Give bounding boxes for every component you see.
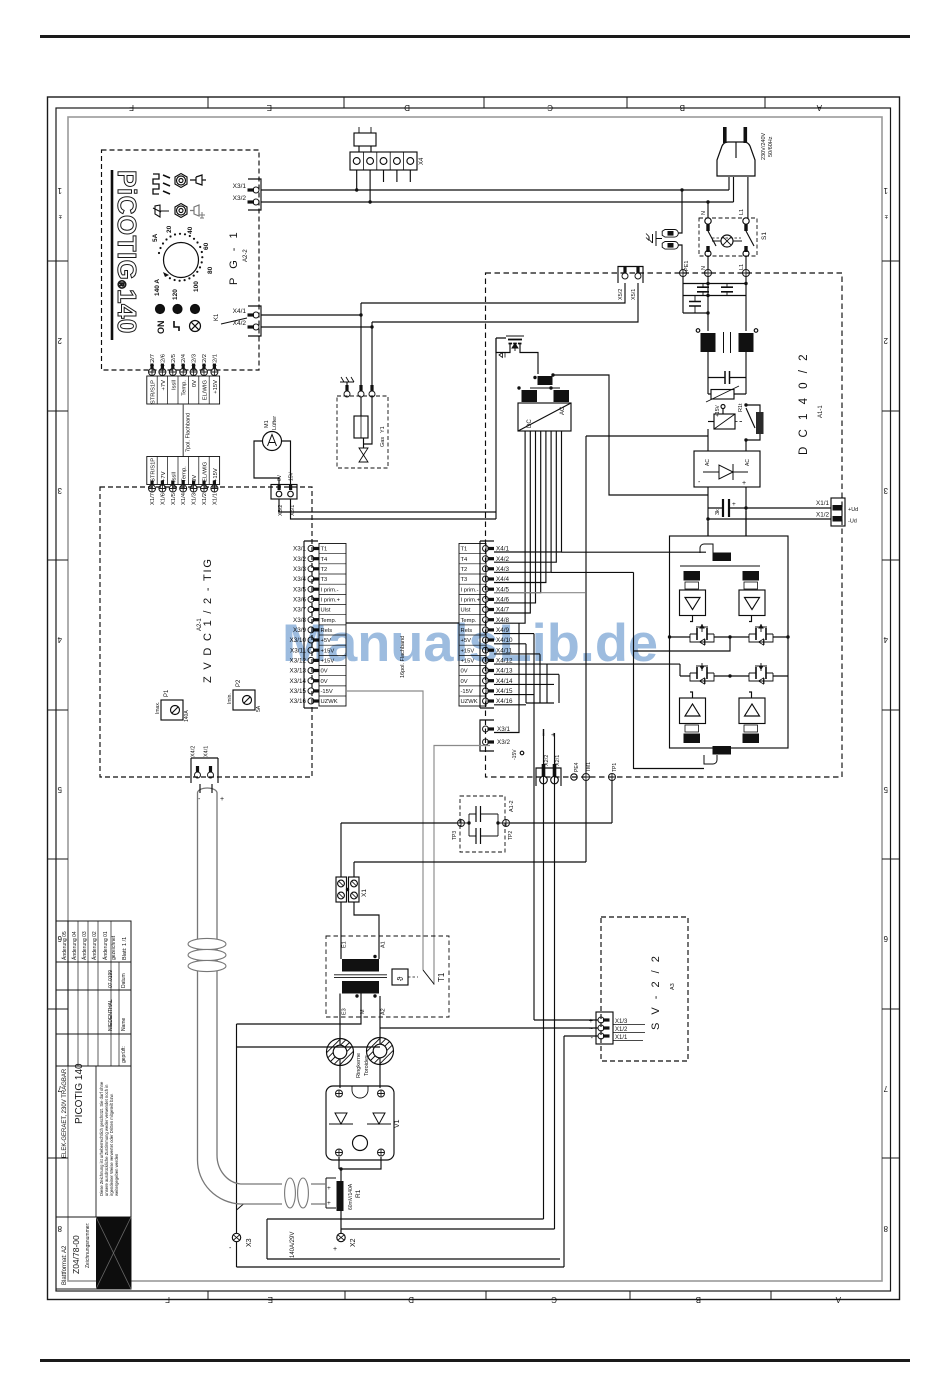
- svg-text:I prim.+: I prim.+: [321, 598, 341, 604]
- svg-text:X4/7: X4/7: [496, 607, 509, 614]
- svg-text:X3/16: X3/16: [290, 698, 307, 705]
- svg-text:PICOTIG 140: PICOTIG 140: [74, 1063, 85, 1124]
- bridge mid tap down: [634, 637, 731, 651]
- svg-text:X3/15: X3/15: [290, 688, 307, 695]
- svg-text:100: 100: [193, 281, 200, 292]
- svg-text:-15V: -15V: [321, 689, 333, 695]
- svg-text:±: ±: [884, 213, 888, 219]
- TITLEBLOCK: [56, 921, 131, 1289]
- svg-text:T3: T3: [321, 577, 328, 583]
- aux transformer T2 secondaries: [522, 390, 538, 402]
- terminal block X4 (torch): [350, 152, 417, 170]
- svg-text:Zeichnungsnummer:: Zeichnungsnummer:: [85, 1222, 91, 1268]
- svg-text:A1-1: A1-1: [818, 405, 824, 418]
- svg-text:+7V: +7V: [161, 380, 167, 391]
- shunt R1: [326, 1178, 336, 1208]
- svg-text:+: +: [333, 1246, 337, 1253]
- svg-text:8: 8: [883, 1224, 888, 1233]
- svg-text:TM1: TM1: [586, 762, 592, 772]
- svg-text:X3/7: X3/7: [293, 607, 306, 614]
- ring core toroid 1: [327, 1039, 354, 1066]
- connector X4 bottom of ZVDC: [191, 758, 218, 783]
- svg-text:1: 1: [883, 186, 888, 195]
- SV wires: [534, 634, 598, 1020]
- PICOTIG 140 logo bar: [111, 170, 114, 340]
- svg-text:60: 60: [203, 242, 210, 250]
- svg-text:Toroides: Toroides: [364, 1055, 370, 1076]
- svg-text:3: 3: [57, 486, 62, 495]
- svg-text:A2: A2: [381, 1008, 387, 1015]
- svg-text:-: -: [698, 479, 701, 486]
- svg-text:L1: L1: [739, 264, 745, 270]
- svg-text:E: E: [267, 103, 272, 112]
- inrush resistor: [756, 412, 764, 434]
- svg-text:+: +: [589, 1018, 593, 1025]
- svg-text:X4: X4: [419, 157, 425, 165]
- Y1 valve symbol: [363, 438, 365, 448]
- chassis ground (mains): [649, 231, 662, 246]
- potentiometer P1: [161, 700, 183, 720]
- fan wires: [254, 441, 279, 485]
- svg-text:DC: DC: [527, 419, 533, 428]
- svg-text:Blattformat: A2: Blattformat: A2: [62, 1245, 68, 1285]
- svg-text:4: 4: [57, 635, 62, 644]
- MOSFET Q3: [749, 633, 773, 635]
- svg-text:D: D: [408, 1295, 414, 1304]
- svg-text:X2: X2: [350, 1238, 357, 1247]
- top page rule: [40, 35, 910, 38]
- frame column ticks top: [208, 97, 765, 108]
- cable strain curls vertical: [188, 938, 226, 971]
- snubber capacitors: [469, 814, 498, 836]
- svg-text:E3: E3: [342, 1008, 348, 1015]
- svg-text:M1: M1: [264, 420, 270, 428]
- svg-text:A3: A3: [670, 983, 676, 990]
- gate transformer BL: [685, 725, 699, 732]
- filter capacitor C3: [689, 302, 701, 307]
- svg-text:Imax.: Imax.: [155, 702, 161, 714]
- svg-text:15V: 15V: [289, 471, 295, 481]
- svg-text:0V: 0V: [192, 475, 198, 482]
- svg-text:AC: AC: [745, 459, 751, 466]
- MOSFET Q4: [690, 672, 714, 674]
- svg-text:4: 4: [883, 635, 888, 644]
- X2 signal name grid: [147, 376, 220, 404]
- rectifier V1: [326, 1086, 394, 1160]
- PE spade connectors: [662, 230, 678, 238]
- test point TP3: [458, 820, 465, 827]
- fan supply wires: [279, 499, 496, 512]
- test point PE4: [571, 774, 577, 780]
- svg-text:X4/1: X4/1: [204, 746, 210, 757]
- svg-text:Änderung 04: Änderung 04: [71, 931, 78, 960]
- svg-text:X1/2: X1/2: [202, 493, 208, 505]
- output terminal X2: [337, 1233, 345, 1241]
- X3 wires: [237, 1024, 565, 1267]
- V1 diode 2: [367, 1113, 391, 1124]
- svg-text:I prim.-: I prim.-: [321, 587, 339, 593]
- terminal row X2/1..X2/7: [149, 364, 218, 376]
- wire X3/2 mains N run: [261, 177, 734, 218]
- svg-text:Änderung 03: Änderung 03: [81, 931, 88, 960]
- svg-text:20: 20: [166, 225, 173, 233]
- svg-text:7: 7: [883, 1084, 888, 1093]
- svg-text:STR/S1P: STR/S1P: [151, 458, 157, 482]
- gray drawing border: [68, 117, 882, 1281]
- relay K1 coil: [714, 414, 735, 429]
- bridge rectifier V: [694, 451, 760, 487]
- svg-text:A1-2: A1-2: [509, 800, 515, 812]
- svg-text:8: 8: [57, 1224, 62, 1233]
- svg-text:X3/4: X3/4: [293, 576, 306, 583]
- chopper MOSFET Q1: [506, 335, 524, 337]
- output terminal X3: [232, 1233, 240, 1241]
- S1 top terminals: [705, 218, 711, 224]
- svg-text:1: 1: [57, 186, 62, 195]
- svg-text:5: 5: [883, 785, 888, 794]
- X1 to T1 wires: [341, 902, 379, 959]
- svg-text:S1: S1: [761, 232, 768, 240]
- electrode cable tube: [197, 788, 282, 1204]
- svg-text:X3/1: X3/1: [233, 183, 247, 190]
- svg-text:3k: 3k: [715, 509, 721, 515]
- test point TP2: [503, 820, 510, 827]
- cable strain curls horizontal: [285, 1178, 309, 1208]
- board A2-2 PG-1 dashed box: [102, 150, 260, 370]
- svg-text:+: +: [732, 501, 736, 508]
- svg-text:A: A: [816, 103, 822, 112]
- svg-text:gezeichnet: gezeichnet: [111, 935, 117, 960]
- driver U3: [680, 698, 706, 724]
- connector X1 (power board): [831, 498, 845, 526]
- svg-text:X3/2: X3/2: [233, 195, 247, 202]
- svg-text:X3/3: X3/3: [293, 566, 306, 573]
- title block outline: [56, 921, 131, 1289]
- svg-text:N: N: [701, 211, 707, 215]
- svg-text:T1: T1: [461, 547, 468, 553]
- inner drawing frame: [56, 108, 891, 1291]
- svg-text:120: 120: [172, 289, 179, 300]
- connector X3 column (ZVDC): [304, 541, 318, 708]
- svg-text:ManualsLib.de: ManualsLib.de: [282, 614, 658, 673]
- svg-text:-15V: -15V: [512, 749, 518, 760]
- T1 secondary: [342, 981, 379, 994]
- svg-text:T4: T4: [461, 557, 469, 563]
- svg-text:140 A: 140 A: [154, 279, 161, 296]
- test point TM1: [583, 774, 590, 781]
- svg-text:0V: 0V: [461, 679, 468, 685]
- svg-text:X3/2: X3/2: [293, 556, 306, 563]
- svg-text:UZWK: UZWK: [321, 699, 338, 705]
- svg-text:Gas: Gas: [380, 437, 386, 447]
- driver to gate links: [690, 616, 752, 622]
- output choke bottom: [713, 746, 732, 755]
- svg-text:3: 3: [883, 486, 888, 495]
- svg-text:E: E: [268, 1295, 273, 1304]
- aux transformer T2 primary: [538, 376, 553, 385]
- svg-text:Y1: Y1: [380, 426, 386, 433]
- bus to X1 connector: [708, 508, 831, 519]
- gate feed lower-left: [679, 664, 681, 676]
- knob arrow marker: [163, 272, 169, 277]
- svg-text:D: D: [404, 103, 410, 112]
- svg-text:N: N: [701, 266, 707, 270]
- wire TP3 to X1: [341, 823, 457, 877]
- S1 lamp: [721, 235, 733, 247]
- fan M1: [263, 432, 282, 451]
- Y1 terminals: [344, 385, 350, 397]
- svg-text:X2/2: X2/2: [202, 354, 208, 366]
- svg-text:B: B: [680, 103, 685, 112]
- svg-text:PE1: PE1: [684, 261, 690, 271]
- gate transformer BR: [744, 725, 758, 732]
- svg-text:Datum: Datum: [121, 973, 127, 988]
- H-bridge outer loop: [670, 536, 789, 748]
- svg-text:X1/1: X1/1: [816, 500, 829, 507]
- power output connector X2/1 X2/2: [536, 768, 561, 786]
- svg-text:+7V: +7V: [161, 471, 167, 482]
- svg-text:D C 1 4 0 / 2: D C 1 4 0 / 2: [798, 351, 810, 455]
- frame column ticks bottom: [208, 1291, 771, 1300]
- electrolytic capacitor 3k: [722, 499, 724, 517]
- X4 row wires to outputs: [494, 634, 680, 705]
- wire X5 to gas valve / torch trigger: [361, 283, 638, 322]
- svg-text:Z V D C 1 / 2 - TIG: Z V D C 1 / 2 - TIG: [202, 557, 214, 683]
- svg-text:2: 2: [883, 336, 888, 345]
- wire Temp row to X3/1: [494, 623, 519, 732]
- svg-text:C: C: [547, 103, 553, 112]
- control bus DC/AC to X4 rows: [494, 431, 562, 552]
- svg-text:K1: K1: [214, 313, 220, 321]
- wire X3/1 mains PE run: [261, 177, 729, 233]
- svg-text:TP2: TP2: [508, 831, 514, 840]
- svg-text:AC: AC: [705, 459, 711, 466]
- frame row ticks left: [48, 261, 69, 1158]
- svg-text:X5/2: X5/2: [618, 289, 624, 300]
- svg-text:Issll: Issll: [171, 472, 177, 482]
- filter capacitor C2: [721, 287, 733, 292]
- Y1 solenoid: [361, 397, 372, 444]
- svg-text:X2/5: X2/5: [171, 354, 177, 366]
- bridge mid rail upper: [670, 636, 789, 638]
- svg-text:X1/3: X1/3: [192, 493, 198, 505]
- svg-text:T1: T1: [437, 972, 446, 982]
- mains plug: [717, 142, 755, 176]
- svg-text:2: 2: [57, 336, 62, 345]
- connector X1 (SV board): [596, 1012, 613, 1044]
- wire I prim- (gray): [494, 592, 585, 594]
- knob scale labels: [152, 225, 214, 300]
- T1 core: [334, 975, 387, 978]
- svg-text:7pol. Flachband: 7pol. Flachband: [186, 413, 192, 452]
- connector X5 on power board: [618, 267, 643, 284]
- thermostat contact: [423, 970, 434, 984]
- svg-text:I prim.-: I prim.-: [461, 587, 479, 593]
- mains entry screw terminals PE1 N L1: [680, 270, 687, 277]
- svg-text:A: A: [835, 1295, 841, 1304]
- svg-text:X2/1: X2/1: [555, 755, 561, 766]
- trigger symbol: [174, 321, 179, 331]
- svg-text:-15V: -15V: [461, 689, 473, 695]
- T1 primary: [342, 959, 379, 972]
- gate transformer TR: [743, 571, 760, 581]
- output choke top: [700, 544, 713, 553]
- svg-text:ELEK-GERAET, 230V TRAGBAR: ELEK-GERAET, 230V TRAGBAR: [62, 1068, 68, 1158]
- filter capacitor C1: [697, 287, 709, 292]
- svg-text:EL/WIG: EL/WIG: [203, 461, 209, 482]
- svg-text:X2/3: X2/3: [192, 354, 198, 366]
- svg-text:0V: 0V: [192, 380, 198, 387]
- svg-text:EL/WIG: EL/WIG: [203, 380, 209, 401]
- gate transformer TL: [684, 571, 701, 581]
- svg-text:+15V: +15V: [213, 380, 219, 394]
- wires ZVDC X4 into tube: [200, 784, 212, 793]
- svg-text:5A: 5A: [152, 233, 159, 242]
- driver U1: [680, 590, 706, 616]
- svg-text:X1/7: X1/7: [150, 493, 156, 505]
- svg-text:T4: T4: [321, 557, 329, 563]
- board A3 SV-2/2 dashed box: [601, 917, 688, 1061]
- svg-text:07.0199: 07.0199: [108, 970, 114, 988]
- svg-text:F: F: [129, 103, 134, 112]
- svg-text:-: -: [198, 796, 201, 803]
- potentiometer P2: [233, 690, 255, 710]
- X1 signal name grid: [147, 457, 220, 485]
- svg-text:Name: Name: [121, 1017, 127, 1031]
- X4 block stubs: [357, 170, 411, 202]
- svg-text:X4/2: X4/2: [191, 746, 197, 757]
- svg-text:+: +: [327, 1200, 331, 1207]
- svg-text:PE4: PE4: [574, 762, 580, 772]
- S1 contacts: [708, 231, 754, 246]
- svg-text:X3: X3: [246, 1238, 253, 1247]
- transformer T1 dashed box: [326, 936, 449, 1017]
- svg-text:weitergegeben werden: weitergegeben werden: [114, 1153, 119, 1196]
- svg-text:Ulst: Ulst: [321, 608, 331, 614]
- thermostat in T1: [392, 969, 408, 985]
- svg-text:P1: P1: [164, 689, 170, 697]
- R1 to X2 wire: [340, 1211, 342, 1233]
- frame row ticks right: [882, 261, 900, 1158]
- bridge negative return: [551, 572, 704, 769]
- svg-text:X4/4: X4/4: [496, 576, 509, 583]
- T1 wires to toroids: [237, 994, 381, 1089]
- switch S1 dashed box: [699, 218, 757, 256]
- connector X3 on PG-1: [248, 179, 261, 210]
- svg-text:Imin.: Imin.: [227, 693, 233, 704]
- gas valve Y1 dashed box: [337, 396, 388, 468]
- svg-text:A1: A1: [381, 941, 387, 948]
- svg-text:X2/7: X2/7: [150, 354, 156, 366]
- bridge mid rail lower: [680, 675, 788, 677]
- svg-text:TP3: TP3: [452, 831, 458, 840]
- MOSFET Q5: [749, 672, 773, 674]
- svg-text:±: ±: [58, 213, 62, 219]
- knob icon 1: [175, 174, 187, 188]
- svg-text:-Ud: -Ud: [848, 519, 857, 525]
- svg-text:ϑ: ϑ: [396, 976, 405, 981]
- svg-text:Temp.: Temp.: [182, 466, 188, 482]
- svg-text:+: +: [742, 480, 746, 487]
- svg-text:T2: T2: [321, 567, 328, 573]
- svg-text:ON: ON: [156, 321, 166, 335]
- svg-text:R1t: R1t: [738, 403, 744, 412]
- svg-text:X3/2: X3/2: [497, 739, 510, 746]
- chassis ground (valve): [340, 377, 354, 391]
- svg-text:X1/4: X1/4: [181, 492, 187, 505]
- 7pol ribbon cable: [182, 404, 184, 457]
- current knob: [164, 243, 199, 278]
- svg-text:X2/4: X2/4: [181, 353, 187, 366]
- fault lamp symbol: [190, 321, 201, 332]
- HF ignition icon: [153, 174, 159, 194]
- svg-text:40: 40: [187, 226, 194, 234]
- svg-text:+15V: +15V: [715, 405, 721, 417]
- svg-text:X3/5: X3/5: [293, 586, 306, 593]
- title block grid: [56, 962, 131, 1217]
- bottom page rule: [40, 1359, 910, 1362]
- svg-text:UZWK: UZWK: [461, 699, 478, 705]
- svg-text:A2-2: A2-2: [243, 249, 249, 262]
- Q1 drain wire to transformer: [528, 353, 538, 375]
- output power wires down: [544, 733, 555, 1229]
- svg-text:X1/1: X1/1: [615, 1035, 628, 1041]
- dc bus rails: [708, 487, 746, 536]
- svg-text:0V: 0V: [277, 474, 283, 481]
- svg-text:X1/2: X1/2: [615, 1027, 628, 1033]
- svg-text:140A: 140A: [184, 710, 190, 722]
- svg-text:X1/2: X1/2: [816, 512, 829, 519]
- svg-text:X4/3: X4/3: [496, 566, 509, 573]
- svg-text:+Ud: +Ud: [848, 507, 858, 513]
- svg-text:X3/1: X3/1: [293, 546, 306, 553]
- V1 output wires: [339, 1157, 381, 1181]
- X3 signal name box: [319, 544, 346, 707]
- svg-text:E1: E1: [342, 941, 348, 948]
- connector X4 on PG-1 (K1): [248, 306, 261, 336]
- svg-text:P2: P2: [236, 679, 242, 687]
- svg-text:Ulst: Ulst: [461, 608, 471, 614]
- electrode icon: [153, 205, 169, 217]
- driver U2: [739, 590, 765, 616]
- svg-text:50/60Hz: 50/60Hz: [768, 136, 774, 157]
- wire TM1: [354, 436, 586, 877]
- connector X3 (power board bottom): [480, 720, 494, 751]
- wire X4/1 X4/2 stubs from PG-1: [261, 315, 372, 327]
- S1 bottom pins: [706, 246, 709, 252]
- svg-text:+15V: +15V: [213, 468, 219, 482]
- torch icon 2: [190, 205, 199, 216]
- svg-text:X1/1: X1/1: [212, 493, 218, 505]
- svg-text:NIEDENTHAL: NIEDENTHAL: [108, 999, 114, 1031]
- svg-text:Temp.: Temp.: [182, 380, 188, 396]
- svg-text:X4/2: X4/2: [496, 556, 509, 563]
- common mode choke L1: [701, 333, 716, 352]
- svg-text:Ringkerne: Ringkerne: [356, 1053, 362, 1078]
- T2 wire to +5V line: [553, 375, 708, 495]
- Q1 source wire down: [496, 338, 506, 519]
- svg-text:AC: AC: [560, 406, 566, 415]
- svg-text:L1: L1: [739, 209, 745, 215]
- svg-text:Issll: Issll: [171, 380, 177, 390]
- svg-text:T1: T1: [321, 547, 328, 553]
- svg-text:X2/2: X2/2: [544, 755, 550, 766]
- 16pol ribbon cable: [346, 622, 459, 624]
- svg-text:X1/3: X1/3: [615, 1019, 628, 1025]
- svg-text:+: +: [551, 730, 556, 739]
- title block black box: [96, 1217, 131, 1289]
- svg-text:6: 6: [883, 934, 888, 943]
